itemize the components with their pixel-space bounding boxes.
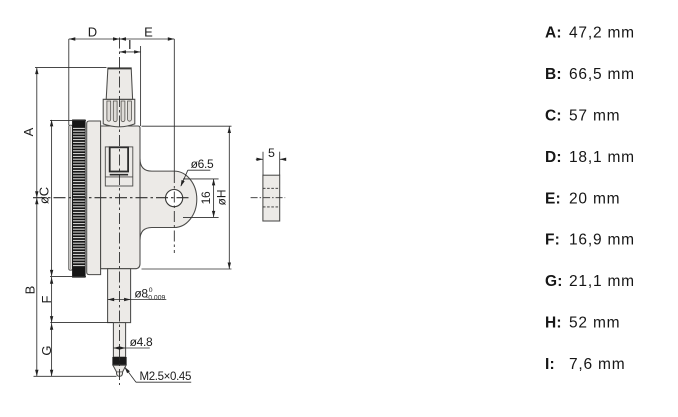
dim I xyxy=(120,46,141,126)
knurl stripes xyxy=(73,128,85,265)
bezel housing xyxy=(87,121,101,275)
side view axis xyxy=(251,197,286,199)
thread band xyxy=(113,357,127,365)
svg-text:C:: C: xyxy=(545,108,562,125)
svg-text:57 mm: 57 mm xyxy=(569,108,620,125)
svg-text:A:: A: xyxy=(545,25,562,42)
main body xyxy=(101,126,140,269)
crown (knurled thumb cap) xyxy=(103,99,135,127)
dim øH xyxy=(142,126,232,269)
svg-text:20 mm: 20 mm xyxy=(569,190,620,207)
svg-text:D:: D: xyxy=(545,149,562,166)
leader M2.5x0.45 xyxy=(125,367,192,382)
svg-text:øC: øC xyxy=(37,187,52,204)
svg-text:øH: øH xyxy=(215,190,229,206)
svg-text:18,1 mm: 18,1 mm xyxy=(569,149,635,166)
dim D-E line xyxy=(69,37,175,125)
dim ø8 xyxy=(108,298,167,301)
svg-text:M2.5×0.45: M2.5×0.45 xyxy=(140,371,192,383)
svg-text:21,1 mm: 21,1 mm xyxy=(569,273,635,290)
bezel lip xyxy=(69,125,73,270)
svg-text:I: I xyxy=(128,37,132,52)
svg-text:16,9 mm: 16,9 mm xyxy=(569,232,635,249)
svg-text:0: 0 xyxy=(149,287,153,294)
svg-text:ø6.5: ø6.5 xyxy=(191,157,214,171)
svg-text:E:: E: xyxy=(545,190,561,207)
top cap xyxy=(106,68,132,99)
svg-text:47,2 mm: 47,2 mm xyxy=(569,25,635,42)
svg-text:5: 5 xyxy=(268,146,275,160)
svg-text:I:: I: xyxy=(545,356,555,373)
lug plate xyxy=(140,159,197,241)
dim 5 (side view) xyxy=(256,152,286,176)
svg-text:F: F xyxy=(39,295,54,303)
vertical axis xyxy=(119,38,121,386)
dim øC xyxy=(50,120,86,277)
svg-text:-0.009: -0.009 xyxy=(146,295,165,302)
svg-text:52 mm: 52 mm xyxy=(569,315,620,332)
svg-text:G: G xyxy=(39,345,54,355)
svg-text:E: E xyxy=(144,25,153,40)
svg-text:G:: G: xyxy=(545,273,563,290)
dim B xyxy=(34,198,117,377)
lug hole xyxy=(166,190,183,207)
hole axis vertical xyxy=(173,39,175,172)
svg-text:16: 16 xyxy=(199,191,213,204)
spindle ø4.8 xyxy=(113,323,125,358)
clamp detail on body xyxy=(105,147,133,186)
svg-text:H:: H: xyxy=(545,315,562,332)
stem ø8 xyxy=(108,269,131,323)
dim ø4.8 xyxy=(113,346,149,349)
svg-text:B:: B: xyxy=(545,66,562,83)
svg-text:D: D xyxy=(88,25,97,40)
svg-text:B: B xyxy=(22,286,37,295)
dim 16 xyxy=(183,179,219,218)
svg-text:66,5 mm: 66,5 mm xyxy=(569,66,635,83)
knurled bezel band xyxy=(72,120,85,277)
svg-text:A: A xyxy=(21,127,36,136)
horizontal axis xyxy=(33,197,190,199)
dim F xyxy=(50,277,113,323)
svg-text:ø4.8: ø4.8 xyxy=(130,335,153,349)
svg-text:7,6 mm: 7,6 mm xyxy=(569,356,625,373)
dim G xyxy=(50,323,53,376)
svg-text:F:: F: xyxy=(545,232,560,249)
leader ø6.5 xyxy=(181,170,211,186)
side plate xyxy=(263,175,280,221)
contact point tip xyxy=(113,365,126,376)
dim A xyxy=(35,68,107,198)
